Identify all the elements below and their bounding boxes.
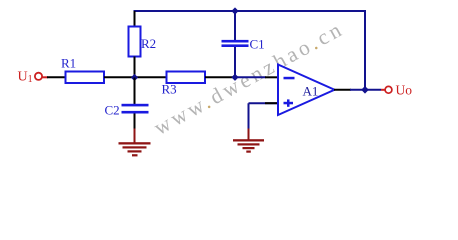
wire R2 top lead (134, 11, 136, 27)
wire non-inverting input (249, 103, 279, 129)
op-amp minus sign (284, 77, 295, 80)
wire R1 to R3 through node A (104, 76, 167, 78)
node output (361, 86, 369, 94)
wire output stub red (381, 89, 385, 91)
wire R3 to node B (205, 76, 236, 78)
node B (231, 74, 238, 81)
wire C2 bottom lead (134, 114, 136, 130)
wire C1 bottom lead (234, 47, 236, 78)
ground under C2 (119, 142, 151, 156)
resistor R3 (167, 72, 206, 84)
wire output to terminal (350, 89, 381, 91)
svg-text:R3: R3 (162, 82, 177, 97)
svg-text:Uo: Uo (396, 82, 413, 97)
svg-text:C1: C1 (250, 37, 265, 52)
wire input to R1 (47, 76, 66, 78)
wire C2 top lead (134, 78, 136, 105)
terminal Ui (35, 73, 42, 80)
wire feedback drop (364, 11, 366, 90)
svg-text:C2: C2 (105, 103, 120, 118)
wire C1 top lead (234, 11, 236, 41)
op-amp plus sign (284, 99, 294, 106)
node A (131, 74, 138, 81)
wire R2 bottom lead (134, 57, 136, 79)
op-amp A1 (278, 65, 335, 116)
svg-text:R2: R2 (141, 36, 156, 51)
watermark (150, 16, 348, 140)
wire op-amp output (334, 89, 351, 91)
svg-text:A1: A1 (303, 84, 319, 99)
wire ground 2 stem (248, 129, 250, 141)
wire input stub red (42, 76, 48, 78)
svg-text:R1: R1 (61, 56, 76, 71)
resistor R2 (129, 27, 141, 57)
wire op-amp plus stub black (265, 102, 279, 104)
resistor R1 (66, 72, 105, 84)
wire top rail (134, 10, 367, 12)
terminal Uo (385, 86, 392, 93)
wire node B to op-amp black segment (235, 76, 266, 78)
node C1 top (231, 7, 238, 14)
capacitor C2 (122, 104, 149, 114)
wire op-amp inverting stub (265, 76, 279, 78)
ground at non-inverting input (233, 139, 264, 153)
wire ground 1 stem (134, 129, 136, 144)
capacitor C1 (222, 40, 249, 47)
